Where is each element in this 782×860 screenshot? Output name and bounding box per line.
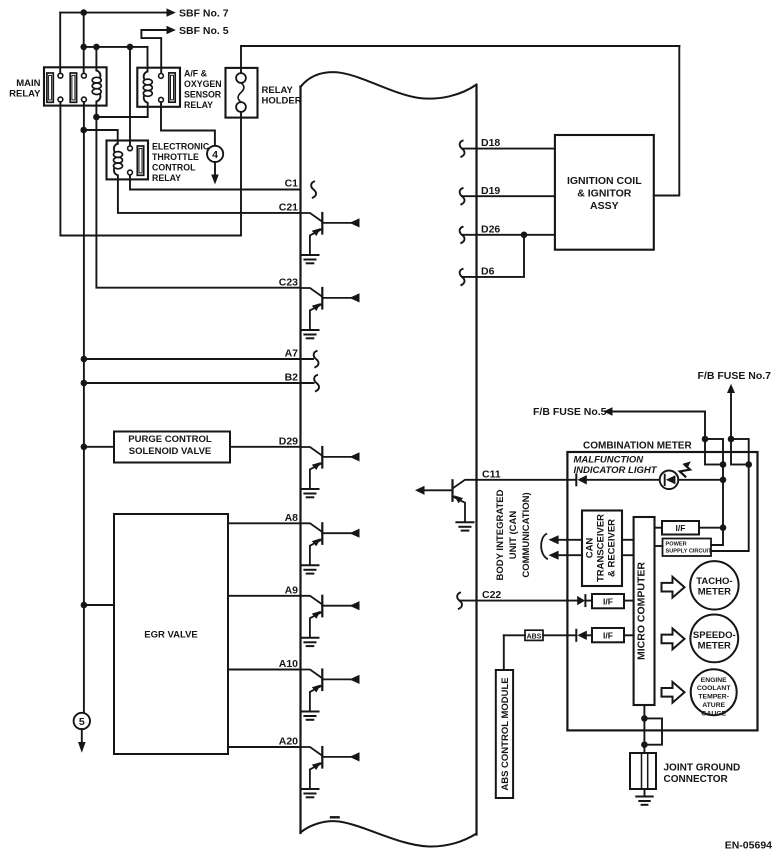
junction dot rail y47 left <box>80 44 87 51</box>
svg-text:F/B FUSE No.7: F/B FUSE No.7 <box>698 370 772 382</box>
wire A20 <box>228 746 301 748</box>
wire D26 <box>462 234 555 236</box>
svg-text:ATURE: ATURE <box>702 702 725 709</box>
svg-text:C23: C23 <box>279 277 298 289</box>
svg-text:TRANSCEIVER: TRANSCEIVER <box>596 514 607 582</box>
wire D18 <box>462 148 555 150</box>
ETC relay pin circles <box>128 146 133 175</box>
label BODY INTEGRATED UNIT (CAN COMMUNICATION) <box>495 489 532 580</box>
svg-text:OXYGEN: OXYGEN <box>184 79 222 89</box>
wire to F/B fuse No.5 <box>610 412 705 440</box>
junction dot rail/main coil <box>93 44 100 51</box>
meter pointer arrow tacho <box>662 577 685 598</box>
ETC relay coil stubs <box>114 144 118 180</box>
ETC relay box <box>107 141 149 180</box>
svg-text:5: 5 <box>79 716 85 728</box>
svg-text:A7: A7 <box>285 348 299 360</box>
micro computer box <box>634 517 655 705</box>
transistor at A10 <box>301 670 360 720</box>
svg-text:ENGINE: ENGINE <box>701 677 728 684</box>
ABS tag box <box>525 630 543 640</box>
svg-text:I/F: I/F <box>603 597 613 607</box>
arrowhead SBF No.5 <box>167 26 176 34</box>
wire purge valve left <box>84 446 114 448</box>
diode D3 on ABS line <box>575 630 577 641</box>
junction dot fuse B bottom <box>745 461 752 468</box>
svg-text:RELAY: RELAY <box>262 85 294 96</box>
junction dot I/F top bus <box>720 524 727 531</box>
junction dot rail/ETC coil <box>80 127 87 134</box>
fuse A rectangle <box>705 439 723 465</box>
svg-text:ABS: ABS <box>527 633 542 640</box>
squiggle D19 <box>460 188 465 204</box>
wire I/F ABS to micro <box>624 634 634 636</box>
svg-text:JOINT GROUND: JOINT GROUND <box>664 762 741 773</box>
I/F box C22 <box>592 594 624 608</box>
svg-text:PURGE CONTROL: PURGE CONTROL <box>128 434 212 445</box>
wire SBF No.5 jog <box>141 30 161 73</box>
wire micro to I/F top <box>655 527 663 529</box>
ETC relay coil <box>114 152 123 169</box>
wire ETC coil top feed from rail <box>84 130 118 144</box>
wire A10 <box>228 669 301 671</box>
junction dot C11/fuse bus <box>720 477 727 484</box>
wire micro to power supply circuit <box>655 545 663 547</box>
wire CAN to micro lower <box>622 554 634 556</box>
squiggle D26 <box>460 227 465 243</box>
svg-text:CONNECTOR: CONNECTOR <box>664 774 729 785</box>
squiggle C22 <box>457 593 462 609</box>
EGR valve box <box>114 514 228 754</box>
arrow up to F/B fuse No.7 <box>730 391 732 439</box>
svg-text:POWER: POWER <box>666 542 687 548</box>
svg-text:MICRO COMPUTER: MICRO COMPUTER <box>636 562 648 660</box>
I/F box top <box>662 521 699 535</box>
engine coolant temperature gauge circle <box>691 669 737 715</box>
wire top bus to ignition coil <box>241 45 679 47</box>
svg-text:RELAY: RELAY <box>9 89 41 100</box>
svg-text:SBF No. 7: SBF No. 7 <box>179 7 229 19</box>
transistor at D29 <box>301 447 360 497</box>
svg-text:COMBINATION METER: COMBINATION METER <box>583 440 692 451</box>
wire A/F coil bottom branch <box>96 107 147 117</box>
svg-text:A8: A8 <box>285 512 299 524</box>
malfunction indicator light LED circle <box>660 471 679 490</box>
junction dot SBF7/main-relay <box>80 9 87 16</box>
wire ETC pin bottom to C1 <box>130 175 301 190</box>
arrow below circle 5 <box>81 729 83 743</box>
speedometer circle <box>690 615 738 663</box>
wire A/F coil top feed <box>147 47 149 71</box>
LED lightning arrow <box>680 465 690 477</box>
wire ETC coil bottom to C21 <box>118 179 301 213</box>
main relay coil stubs <box>96 67 100 105</box>
wire ETC relay top pin feed <box>129 47 131 146</box>
ECM bottom wavy edge <box>301 821 477 846</box>
CAN bus arrow lower <box>558 554 583 556</box>
wire A/F relay pin bottom to circle 4 <box>161 102 215 146</box>
A/F relay coil <box>143 79 152 96</box>
CAN bus arc <box>541 534 547 559</box>
label CAN TRANSCEIVER & RECEIVER <box>585 514 618 582</box>
svg-text:C21: C21 <box>279 201 298 213</box>
ground symbol joint connector <box>636 796 652 798</box>
arrowhead F/B fuse No.5 <box>603 407 612 415</box>
power supply circuit box <box>663 539 712 557</box>
svg-text:C1: C1 <box>285 178 299 190</box>
svg-text:D6: D6 <box>481 266 495 278</box>
label MAIN RELAY <box>9 78 41 100</box>
svg-text:D19: D19 <box>481 185 500 197</box>
wire B2 <box>84 382 314 384</box>
svg-text:EGR VALVE: EGR VALVE <box>144 630 198 641</box>
svg-text:RELAY: RELAY <box>184 100 213 110</box>
svg-text:ELECTRONIC: ELECTRONIC <box>152 142 210 152</box>
A/F relay box <box>137 68 180 107</box>
junction dot fuse A bottom <box>720 461 727 468</box>
svg-text:& RECEIVER: & RECEIVER <box>607 519 618 577</box>
svg-text:I/F: I/F <box>603 631 613 641</box>
svg-text:UNIT (CAN: UNIT (CAN <box>508 511 519 560</box>
circle numeral 4 <box>207 146 223 162</box>
LED diode inside <box>664 475 666 485</box>
ECM top wavy edge <box>301 72 477 99</box>
wire main relay coil top <box>95 47 97 70</box>
meter case connector loop <box>644 718 662 744</box>
svg-text:B2: B2 <box>285 372 299 384</box>
svg-text:& IGNITOR: & IGNITOR <box>577 188 631 200</box>
wire C11 to MIL lamp <box>587 479 660 481</box>
label A/F & OXYGEN SENSOR RELAY <box>184 68 222 110</box>
wire diode to I/F ABS <box>587 634 592 636</box>
svg-text:MALFUNCTION: MALFUNCTION <box>574 455 645 466</box>
svg-text:C11: C11 <box>482 468 501 480</box>
junction dot rail B2 <box>81 380 88 387</box>
label IGNITION COIL & IGNITOR ASSY <box>567 175 642 212</box>
squiggle A7 <box>314 351 319 367</box>
svg-text:INDICATOR LIGHT: INDICATOR LIGHT <box>574 465 658 476</box>
wire micro computer ground <box>643 705 645 753</box>
wire D19 <box>462 195 555 197</box>
tachometer circle <box>690 561 738 609</box>
svg-text:A9: A9 <box>285 584 299 596</box>
diode D2 on C22 line <box>577 596 585 605</box>
wire SBF No.5 feed <box>141 29 169 31</box>
label ELECTRONIC THROTTLE CONTROL RELAY <box>152 142 210 184</box>
label RELAY HOLDER <box>262 85 302 107</box>
CAN transceiver and receiver box <box>582 511 622 587</box>
svg-text:BODY INTEGRATED: BODY INTEGRATED <box>495 489 506 580</box>
wire main relay coil bottom to C23 <box>96 106 300 288</box>
junction dot rail/etc relay <box>127 44 134 51</box>
junction dot coil/A-F coil branch <box>93 114 100 121</box>
svg-text:I/F: I/F <box>676 523 686 533</box>
wire down to ABS control module <box>503 635 505 670</box>
wire A8 <box>228 522 301 524</box>
ECM left border <box>299 87 301 834</box>
svg-text:CAN: CAN <box>585 538 596 559</box>
wire ignition coil right feed <box>654 46 680 196</box>
wire rail y47 <box>84 46 148 48</box>
wire C11 to fuse bus <box>678 479 723 481</box>
A/F relay pin circles <box>159 74 164 103</box>
relay holder fuse wave <box>238 83 244 102</box>
svg-text:TEMPER-: TEMPER- <box>698 694 729 701</box>
svg-text:RELAY: RELAY <box>152 173 181 183</box>
squiggle D6 <box>460 269 465 285</box>
ECM polarity minus mark <box>331 816 339 818</box>
main relay contact bar 2 <box>70 73 76 102</box>
meter pointer arrow temp gauge <box>662 682 685 703</box>
label MALFUNCTION INDICATOR LIGHT <box>574 455 658 477</box>
joint ground connector inner <box>642 753 648 789</box>
junction dot ground upper <box>641 715 648 722</box>
squiggle D18 <box>460 141 465 157</box>
svg-text:ABS CONTROL MODULE: ABS CONTROL MODULE <box>500 677 511 790</box>
wire C11 <box>477 479 577 481</box>
svg-text:CONTROL: CONTROL <box>152 163 196 173</box>
label PURGE CONTROL SOLENOID VALVE <box>128 434 212 457</box>
svg-text:D18: D18 <box>481 137 500 149</box>
svg-text:4: 4 <box>212 149 218 161</box>
junction dot fuse A top <box>702 436 709 443</box>
svg-text:MAIN: MAIN <box>16 78 40 89</box>
junction dot D26/D6 <box>521 232 528 239</box>
junction dot rail EGR <box>81 602 88 609</box>
wire joint ground connector to ground <box>644 789 646 796</box>
label SPEEDO-METER <box>693 630 736 652</box>
svg-text:SPEEDO-: SPEEDO- <box>693 630 736 641</box>
svg-text:F/B FUSE No.5: F/B FUSE No.5 <box>533 406 607 418</box>
svg-text:A10: A10 <box>279 658 298 670</box>
svg-text:D29: D29 <box>279 435 298 447</box>
svg-text:METER: METER <box>698 641 731 652</box>
joint ground connector box <box>630 753 656 789</box>
wire fuse B down bus <box>711 465 749 552</box>
junction dot ground lower <box>641 741 648 748</box>
svg-text:ASSY: ASSY <box>590 200 619 212</box>
wire purge valve to D29 <box>230 446 301 448</box>
svg-text:A/F &: A/F & <box>184 68 208 78</box>
transistor at C21 <box>301 213 360 263</box>
svg-text:THROTTLE: THROTTLE <box>152 152 199 162</box>
wire main relay contact1 top <box>59 13 61 74</box>
combination meter box <box>567 452 757 730</box>
label TACHO-METER <box>696 576 732 598</box>
label ENGINE COOLANT TEMPERATURE GAUGE <box>697 677 731 718</box>
label POWER SUPPLY CIRCUIT <box>666 542 713 555</box>
circle numeral 5 <box>74 713 90 729</box>
svg-text:METER: METER <box>698 587 731 598</box>
svg-text:D26: D26 <box>481 223 500 235</box>
svg-text:SENSOR: SENSOR <box>184 89 222 99</box>
svg-text:GAUGE: GAUGE <box>701 710 726 717</box>
fuse B rectangle <box>731 439 749 465</box>
svg-text:SBF No. 5: SBF No. 5 <box>179 25 229 37</box>
label JOINT GROUND CONNECTOR <box>664 762 741 785</box>
svg-text:EN-05694: EN-05694 <box>725 840 772 852</box>
svg-text:HOLDER: HOLDER <box>262 96 302 107</box>
junction dot rail purge valve <box>81 444 88 451</box>
junction dot rail A7 <box>81 356 88 363</box>
svg-text:COOLANT: COOLANT <box>697 685 731 692</box>
wire main relay contact1 bottom to relay holder <box>60 102 241 236</box>
wire I/F C22 to micro <box>624 600 634 602</box>
I/F box ABS <box>592 628 624 642</box>
svg-text:TACHO-: TACHO- <box>696 576 732 587</box>
relay holder top circle <box>236 73 246 83</box>
wire ABS feed <box>504 634 525 636</box>
svg-text:SOLENOID VALVE: SOLENOID VALVE <box>129 446 212 457</box>
wire D6 <box>462 235 524 277</box>
wire A7 <box>84 358 313 360</box>
main relay MR box <box>44 67 107 105</box>
wire relay holder top feed <box>240 46 242 73</box>
wire diode to I/F C22 <box>585 600 592 602</box>
wire C22 <box>460 600 578 602</box>
svg-text:A20: A20 <box>279 736 298 748</box>
main relay coil <box>92 77 101 94</box>
transistor at A9 <box>301 596 360 646</box>
wire CAN to micro upper <box>622 539 634 541</box>
wire EGR valve left <box>84 604 114 606</box>
wire SBF No.7 feed <box>60 12 169 14</box>
wire main relay contact2 bottom rail (long left rail) <box>83 102 85 714</box>
svg-text:IGNITION COIL: IGNITION COIL <box>567 175 642 187</box>
svg-text:C22: C22 <box>482 589 501 601</box>
diode D1 on C11 line <box>575 474 577 485</box>
squiggle C1 <box>311 182 316 198</box>
junction dot fuse B top <box>728 436 735 443</box>
svg-text:SUPPLY CIRCUIT: SUPPLY CIRCUIT <box>666 549 713 555</box>
wire I/F top to fuse bus <box>699 527 723 529</box>
squiggle B2 <box>314 375 319 391</box>
transistor at C23 <box>301 288 360 338</box>
main relay contact bar 1 <box>47 73 53 102</box>
svg-text:COMMUNICATION): COMMUNICATION) <box>521 492 532 577</box>
meter pointer arrow speedo <box>662 629 685 650</box>
wire A9 <box>228 595 301 597</box>
ECM right border <box>475 86 477 835</box>
arrow below circle 4 <box>214 162 216 175</box>
main relay pin circles <box>58 73 86 102</box>
purge control solenoid valve box <box>114 432 230 463</box>
CAN bus arrow upper <box>558 539 583 541</box>
relay holder box <box>226 68 258 118</box>
A/F relay coil stubs <box>144 68 148 107</box>
ABS control module box <box>496 670 513 798</box>
transistor at A20 <box>301 747 360 797</box>
transistor at A8 <box>301 523 360 573</box>
wire main relay contact2 top <box>83 13 85 74</box>
transistor at C11 <box>415 480 477 531</box>
wire fuse A down bus <box>711 465 723 546</box>
relay holder bottom circle <box>236 102 246 112</box>
arrowhead SBF No.7 <box>167 8 176 16</box>
A/F relay contact bar <box>169 73 175 102</box>
ignition coil and ignitor assy box <box>555 135 654 250</box>
wire ABS tag to diode <box>543 634 576 636</box>
ETC relay contact bar <box>137 146 143 175</box>
